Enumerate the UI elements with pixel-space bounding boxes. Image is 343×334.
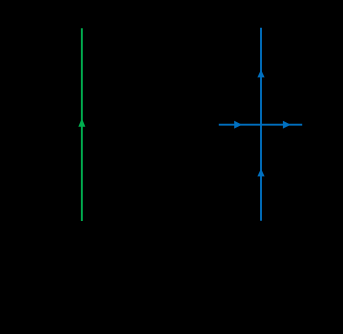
wire W3 (blue horizontal, current right) bbox=[219, 124, 302, 126]
arrowhead on wire W3 left arm (right) bbox=[234, 121, 242, 129]
arrowhead on wire W2 lower arm (up) bbox=[257, 169, 264, 177]
arrowhead on wire W3 right arm (right) bbox=[283, 121, 291, 129]
arrowhead on wire W1 (up) bbox=[78, 118, 85, 127]
arrowhead on wire W2 upper arm (up) bbox=[257, 70, 264, 78]
wire W2 (blue vertical, current up) bbox=[260, 28, 262, 221]
wire W1 (green vertical, current up) bbox=[81, 28, 83, 221]
